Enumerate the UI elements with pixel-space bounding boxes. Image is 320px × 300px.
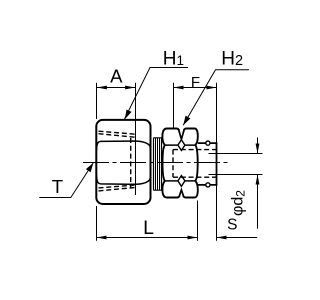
- dimension A extension lines: [97, 83, 136, 195]
- dimension A line: [97, 87, 135, 89]
- knurl top notch whitening: [179, 130, 184, 139]
- knurl bottom notch whitening: [179, 190, 183, 197]
- hidden thread lines bottom face: [99, 185, 138, 191]
- svg-text:S: S: [227, 217, 237, 234]
- svg-text:L: L: [143, 217, 154, 239]
- stub ring circle top: [206, 141, 210, 145]
- hidden thread end vertical: [130, 138, 132, 188]
- sleeve band between nuts: [154, 138, 162, 190]
- knurl face boundary lines: [165, 145, 195, 181]
- hex nut face boundary bottom: [97, 179, 150, 184]
- hex nut face boundary top: [97, 141, 150, 147]
- knurl diamond top: [178, 140, 185, 151]
- svg-text:A: A: [110, 66, 123, 87]
- svg-text:T: T: [52, 176, 63, 197]
- phi d2 dimension line and arrows: [257, 138, 259, 229]
- knurled nut bottom lobe: [162, 181, 197, 198]
- dimension S arrow and tail: [217, 237, 258, 239]
- centerline: [83, 162, 231, 164]
- hidden thread lines top face: [99, 131, 137, 137]
- dimension L extension lines: [97, 201, 198, 241]
- shared extension line right (F top / S bottom): [216, 83, 218, 241]
- phi d2 extension lines: [209, 154, 263, 175]
- hex nut body (female) outline: [96, 120, 150, 204]
- knurl diamond bottom: [178, 176, 185, 187]
- stub ring circle bottom: [206, 183, 210, 187]
- dimension L line: [97, 237, 198, 239]
- hidden bore lines in stub and nut: [173, 150, 217, 178]
- knurled nut middle barrel: [163, 145, 198, 181]
- svg-text:F: F: [191, 74, 200, 91]
- dimension F line: [174, 87, 217, 89]
- dimension F extension line left: [173, 83, 175, 128]
- hose stub outline: [198, 143, 217, 185]
- knurled nut top lobe: [162, 129, 197, 146]
